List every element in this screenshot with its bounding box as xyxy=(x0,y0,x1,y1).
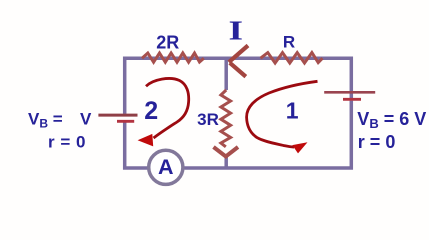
svg-text:3R: 3R xyxy=(197,110,219,129)
svg-text:V: V xyxy=(80,109,92,128)
battery VB right plate long xyxy=(324,91,375,94)
wire middle branch upper xyxy=(224,57,228,91)
svg-text:VB = 6 V: VB = 6 V xyxy=(357,109,426,131)
svg-text:1: 1 xyxy=(286,97,299,123)
wire top and sides xyxy=(125,58,352,114)
svg-text:2: 2 xyxy=(144,97,158,125)
arrow on 3R branch (pointing down) xyxy=(214,147,239,157)
battery VB right plate short xyxy=(343,98,361,101)
ammeter A xyxy=(149,150,183,184)
svg-text:R: R xyxy=(283,32,295,51)
battery VB left plate short xyxy=(117,120,134,123)
wire bottom right xyxy=(184,101,351,168)
svg-text:r = 0: r = 0 xyxy=(358,132,396,152)
current I arrow at top node xyxy=(229,46,248,77)
svg-text:VB =: VB = xyxy=(28,109,63,130)
battery VB left plate long xyxy=(98,114,137,117)
loop 1 curved arrow xyxy=(247,81,318,153)
wire middle branch lower xyxy=(224,156,228,169)
svg-text:r = 0: r = 0 xyxy=(48,132,86,151)
wire bottom left xyxy=(125,123,148,169)
svg-text:2R: 2R xyxy=(156,32,179,52)
resistor 2R xyxy=(142,53,204,62)
svg-text:A: A xyxy=(158,155,174,179)
loop 2 curved arrow xyxy=(138,78,189,146)
svg-text:I: I xyxy=(229,16,243,46)
resistor R xyxy=(261,53,323,63)
resistor 3R xyxy=(221,90,231,147)
